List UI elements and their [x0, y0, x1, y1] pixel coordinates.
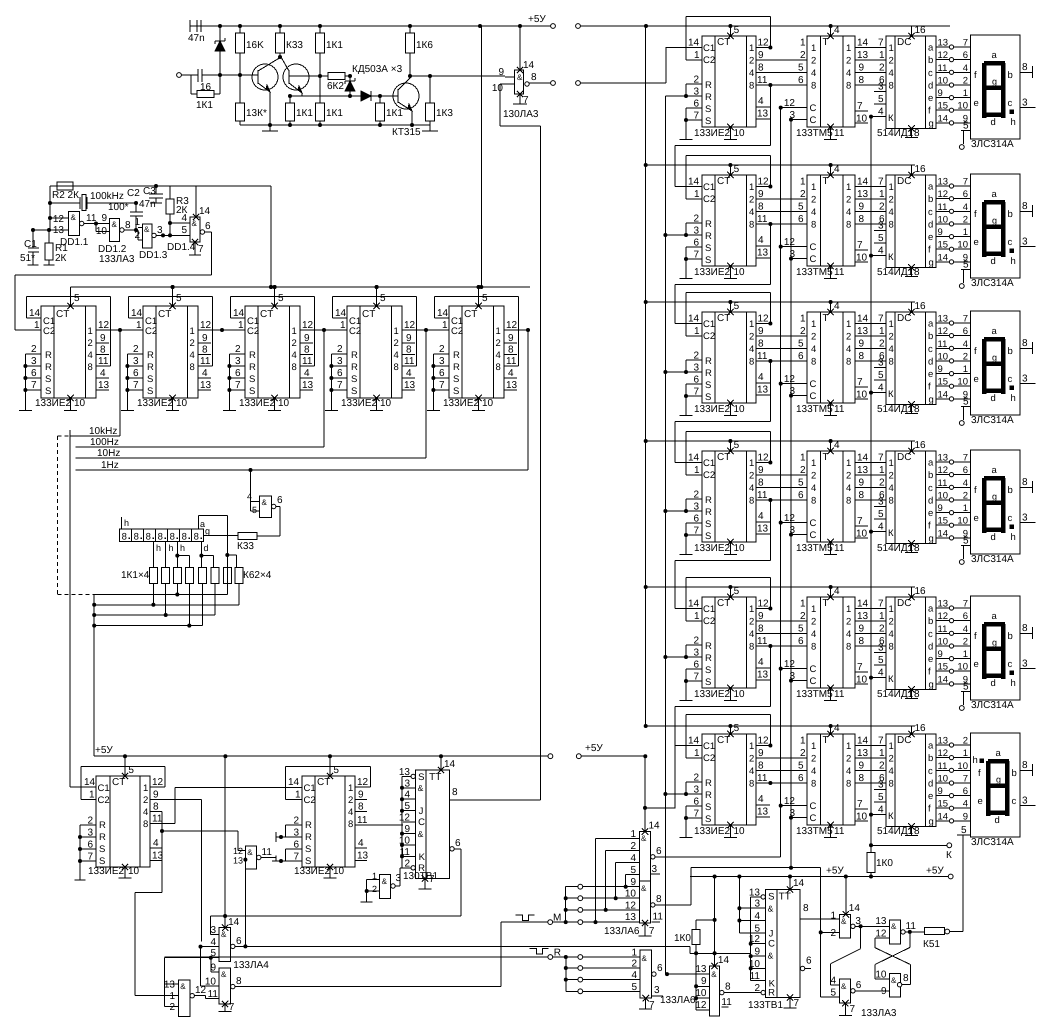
svg-text:8: 8: [758, 624, 764, 635]
svg-text:2: 2: [889, 754, 894, 765]
svg-text:1К1: 1К1: [196, 100, 213, 111]
svg-text:C: C: [810, 103, 817, 114]
resistor K33 blink: [203, 533, 257, 552]
resistor R1 2K: [44, 228, 69, 265]
svg-text:&: &: [841, 982, 847, 991]
wire row2 latch outputs: [855, 177, 886, 264]
counter DD4 133IE2 (divider 2): [143, 306, 198, 398]
svg-text:9: 9: [498, 67, 504, 78]
svg-text:4: 4: [508, 368, 514, 379]
wire +5V row bus: [645, 26, 647, 726]
svg-text:2: 2: [749, 56, 754, 67]
svg-text:14: 14: [857, 453, 869, 464]
wire HG1 pin a: [199, 516, 230, 595]
svg-text:15: 15: [938, 377, 949, 388]
svg-text:16: 16: [915, 440, 927, 451]
svg-text:14: 14: [857, 177, 869, 188]
svg-text:10Hz: 10Hz: [97, 448, 120, 459]
svg-text:2: 2: [811, 56, 816, 67]
wire minute signal line: [163, 958, 165, 984]
decoder DD12 514ID1 row 1: [886, 36, 936, 129]
wire row4 counter loop 12-C2: [686, 431, 773, 476]
svg-text:S: S: [705, 243, 711, 254]
svg-text:8: 8: [170, 532, 175, 543]
svg-text:1К1: 1К1: [386, 108, 403, 119]
svg-text:2: 2: [372, 884, 377, 894]
svg-text:К: К: [946, 850, 952, 861]
svg-text:8: 8: [859, 75, 865, 86]
svg-text:TT: TT: [779, 892, 791, 903]
latch DD23 133TM5 row 5: [807, 597, 855, 688]
svg-text:133ТМ5: 133ТМ5: [796, 543, 833, 554]
svg-text:c: c: [1008, 659, 1013, 670]
svg-text:7: 7: [963, 314, 968, 325]
wire row5 latch outputs: [855, 599, 886, 686]
wire row1 display pin5: [959, 121, 970, 150]
svg-text:d: d: [928, 81, 933, 92]
svg-text:8: 8: [190, 362, 195, 373]
decoder DD24 514ID1 row 5: [886, 597, 936, 690]
svg-text:6: 6: [963, 465, 968, 476]
svg-text:1: 1: [631, 948, 637, 959]
svg-text:1: 1: [811, 741, 816, 752]
svg-text:К: К: [888, 252, 894, 263]
svg-text:1: 1: [879, 748, 885, 759]
wire row5 decoder aux pins: [869, 643, 886, 680]
svg-text:1Hz: 1Hz: [101, 460, 119, 471]
svg-text:5: 5: [798, 478, 804, 489]
svg-text:4: 4: [749, 629, 754, 640]
svg-text:3: 3: [439, 356, 445, 367]
svg-text:4: 4: [631, 970, 637, 981]
svg-text:2: 2: [963, 637, 968, 648]
svg-text:1: 1: [89, 790, 95, 801]
wire DD8.1 out 6: [257, 495, 283, 536]
svg-text:R: R: [147, 362, 154, 373]
svg-text:12: 12: [195, 985, 207, 996]
svg-text:8: 8: [394, 362, 399, 373]
svg-text:14: 14: [688, 314, 700, 325]
svg-text:5: 5: [798, 63, 804, 74]
svg-text:7: 7: [878, 38, 884, 49]
svg-text:1: 1: [889, 43, 894, 54]
svg-text:S: S: [705, 380, 711, 391]
wire row3 decoder pin8 ground: [877, 401, 920, 415]
svg-text:4: 4: [292, 350, 297, 361]
svg-text:4: 4: [878, 107, 884, 118]
wire DD5 outputs: [292, 320, 327, 391]
svg-text:6: 6: [798, 490, 804, 501]
svg-text:10: 10: [278, 398, 290, 409]
svg-text:g: g: [996, 775, 1001, 785]
svg-text:8: 8: [859, 490, 865, 501]
svg-text:g: g: [929, 394, 934, 405]
wire shield dashed: [57, 436, 94, 595]
svg-text:4: 4: [889, 766, 894, 777]
svg-text:4: 4: [758, 235, 764, 246]
svg-text:15: 15: [938, 662, 949, 673]
svg-text:S: S: [705, 814, 711, 825]
wire row2 decoder pin16 +5V: [908, 164, 926, 178]
svg-text:4: 4: [834, 723, 840, 734]
svg-text:6: 6: [798, 773, 804, 784]
svg-text:8: 8: [914, 128, 920, 139]
svg-text:13: 13: [757, 109, 769, 120]
decoder DD15 514ID1 row 2: [886, 175, 936, 268]
svg-text:3: 3: [337, 356, 343, 367]
svg-text:1: 1: [800, 599, 806, 610]
svg-text:S: S: [705, 392, 711, 403]
svg-text:2: 2: [800, 748, 806, 759]
svg-text:8: 8: [182, 532, 187, 543]
svg-text:e: e: [974, 513, 979, 524]
svg-text:13: 13: [506, 380, 518, 391]
svg-text:13: 13: [757, 807, 769, 818]
svg-text:7: 7: [794, 998, 800, 1009]
svg-text:6: 6: [439, 368, 445, 379]
svg-text:1: 1: [442, 320, 448, 331]
diode VD2 zener: [345, 74, 355, 98]
diode VD3: [350, 91, 382, 101]
wire DD32.1 out 6: [231, 936, 690, 953]
svg-text:CT: CT: [362, 309, 375, 320]
svg-text:2: 2: [963, 490, 968, 501]
svg-text:h: h: [180, 543, 185, 553]
svg-text:d: d: [928, 779, 933, 790]
svg-text:13: 13: [857, 611, 869, 622]
svg-text:9: 9: [758, 50, 764, 61]
svg-text:11: 11: [302, 356, 313, 367]
svg-text:5: 5: [963, 397, 969, 408]
svg-text:2: 2: [754, 983, 760, 994]
svg-text:14: 14: [938, 674, 949, 685]
svg-text:4: 4: [963, 339, 968, 350]
wire +5V rail row 4: [644, 439, 915, 443]
svg-text:14: 14: [437, 308, 449, 319]
svg-text:C2: C2: [703, 331, 715, 342]
svg-text:C: C: [810, 530, 817, 541]
svg-text:12: 12: [758, 736, 770, 747]
svg-text:4: 4: [889, 207, 894, 218]
svg-text:2: 2: [879, 63, 885, 74]
svg-text:14: 14: [688, 736, 700, 747]
op-gate DD30.1 gate 12-13: [160, 829, 272, 946]
svg-text:1: 1: [846, 182, 851, 193]
svg-text:133ТМ5: 133ТМ5: [796, 826, 833, 837]
wire row2 counter pin5: [727, 163, 739, 178]
svg-text:11: 11: [834, 404, 845, 415]
wire row3 latch pin4 +5V: [827, 300, 840, 315]
svg-text:7: 7: [649, 926, 655, 937]
svg-text:4: 4: [889, 344, 894, 355]
svg-text:5: 5: [878, 233, 884, 244]
wire DD3 pin10 ground: [64, 395, 85, 411]
svg-text:c: c: [1012, 796, 1017, 807]
wire row6 display h segment: [973, 755, 985, 766]
svg-text:7: 7: [857, 240, 863, 251]
ground analog left: [262, 125, 278, 131]
wire row4 display pin3: [1020, 513, 1035, 524]
wire row6 counter loop 12-C2: [686, 714, 773, 759]
svg-text:514ИД1: 514ИД1: [877, 826, 914, 837]
counter DD10 133IE2 row 1: [702, 36, 756, 127]
wire common line 0: [94, 594, 227, 596]
svg-text:8: 8: [304, 345, 310, 356]
svg-text:8: 8: [348, 819, 353, 830]
resistor 1K6: [406, 26, 434, 76]
svg-text:8: 8: [194, 532, 199, 543]
svg-text:14: 14: [938, 252, 949, 263]
svg-text:d: d: [991, 678, 996, 689]
svg-text:DD1.1: DD1.1: [60, 237, 89, 248]
svg-text:1: 1: [811, 182, 816, 193]
svg-text:14: 14: [523, 60, 535, 71]
svg-text:S: S: [705, 677, 711, 688]
svg-text:8: 8: [749, 220, 754, 231]
svg-text:11: 11: [98, 356, 109, 367]
svg-text:C1: C1: [703, 43, 715, 54]
svg-text:S: S: [249, 374, 255, 385]
svg-text:100*: 100*: [108, 202, 129, 213]
wire row5 counter pin14 feed: [675, 500, 770, 609]
wire row1 display pin3: [1020, 98, 1035, 109]
svg-text:5: 5: [734, 164, 740, 175]
wire row3 decoder pin16 +5V: [908, 301, 926, 315]
node input terminal: [177, 73, 182, 78]
svg-text:8: 8: [846, 220, 851, 231]
svg-text:1: 1: [190, 326, 195, 337]
svg-text:133ТМ5: 133ТМ5: [796, 128, 833, 139]
svg-text:g: g: [992, 492, 997, 502]
wire cA pin8 link: [135, 812, 162, 893]
svg-text:S: S: [418, 772, 424, 783]
wire DD36 out 8: [720, 982, 761, 1008]
op-gate DD30.2 gate 1-2: [361, 868, 402, 902]
svg-text:6: 6: [205, 221, 211, 232]
svg-text:C: C: [810, 518, 817, 529]
svg-text:8: 8: [914, 543, 920, 554]
svg-text:14: 14: [233, 308, 245, 319]
svg-text:d: d: [991, 393, 996, 404]
svg-text:9: 9: [859, 624, 865, 635]
wire K line: [871, 843, 952, 861]
svg-text:12: 12: [758, 177, 770, 188]
svg-text:S: S: [768, 892, 774, 903]
op-gate DD38.2 133LA3 13-12: [875, 916, 925, 944]
svg-text:1: 1: [800, 38, 806, 49]
wire row6 decoder outputs: [936, 736, 970, 824]
svg-text:R: R: [99, 820, 106, 831]
op-gate DD33 gate 13-1-2: [135, 893, 207, 1017]
svg-text:4: 4: [100, 368, 106, 379]
svg-text:16: 16: [915, 586, 927, 597]
svg-text:8: 8: [749, 496, 754, 507]
wire +5V feed to counters rail: [269, 26, 483, 289]
svg-text:9: 9: [938, 649, 943, 660]
svg-text:8: 8: [100, 345, 106, 356]
svg-text:8: 8: [914, 404, 920, 415]
svg-text:13: 13: [875, 916, 887, 927]
svg-text:9: 9: [938, 227, 943, 238]
display HG5 3LS314A row 4: [970, 450, 1020, 554]
wire cA pin14 10kHz: [70, 786, 96, 788]
svg-text:1К1: 1К1: [326, 40, 343, 51]
svg-text:16K: 16K: [246, 40, 264, 51]
svg-text:7: 7: [850, 1004, 856, 1015]
svg-text:8: 8: [846, 779, 851, 790]
svg-text:2: 2: [830, 928, 836, 939]
svg-text:6: 6: [656, 846, 662, 857]
svg-text:9: 9: [101, 213, 107, 224]
svg-text:15: 15: [938, 101, 949, 112]
svg-text:1: 1: [394, 326, 399, 337]
wire DD1.4 out 6: [200, 221, 212, 275]
svg-text:2: 2: [169, 1002, 175, 1013]
svg-text:&: &: [768, 904, 774, 914]
svg-text:R: R: [249, 362, 256, 373]
svg-text:10: 10: [938, 351, 949, 362]
svg-text:C1: C1: [703, 182, 715, 193]
svg-text:4: 4: [358, 838, 364, 849]
wire row5 decoder pin16 +5V: [908, 586, 926, 600]
wire DD37 pin8 out: [800, 903, 839, 919]
svg-text:8: 8: [125, 220, 131, 231]
counter DD3 133IE2 (divider 1): [41, 306, 96, 398]
resistor 1K0 b: [867, 845, 893, 876]
label KD503A x3: [352, 64, 403, 75]
svg-text:C: C: [810, 254, 817, 265]
wire DD7 loop 11-14: [434, 297, 518, 366]
svg-text:8: 8: [496, 362, 501, 373]
svg-text:13: 13: [938, 736, 949, 747]
wire DD2 pin9: [498, 67, 514, 78]
svg-text:8: 8: [452, 787, 458, 798]
svg-text:13: 13: [757, 524, 769, 535]
counter DD6 133IE2 (divider 4): [347, 306, 402, 398]
svg-text:&: &: [180, 982, 186, 991]
svg-text:7: 7: [133, 380, 139, 391]
svg-text:8: 8: [889, 779, 894, 790]
svg-text:a: a: [992, 611, 998, 622]
svg-text:8: 8: [903, 973, 909, 984]
svg-text:4: 4: [758, 96, 764, 107]
wire row2 latch clocks: [779, 237, 807, 261]
wire DD3 R S pins: [19, 344, 41, 411]
label 133LA3 bottom: [861, 1008, 897, 1019]
svg-text:11: 11: [757, 75, 768, 86]
svg-text:e: e: [928, 369, 933, 380]
svg-text:14: 14: [938, 811, 949, 822]
wire R feed: [0, 0, 1, 1]
transistor VT3 KT315: [380, 77, 421, 138]
svg-text:8: 8: [859, 214, 865, 225]
svg-text:13: 13: [857, 50, 869, 61]
svg-text:1: 1: [800, 177, 806, 188]
svg-text:2: 2: [963, 736, 968, 747]
op-gate DD32.1 133LA4 a: [164, 925, 230, 962]
svg-text:11: 11: [938, 63, 948, 74]
svg-text:10: 10: [734, 689, 746, 700]
svg-text:4: 4: [963, 624, 968, 635]
svg-text:10: 10: [957, 662, 968, 673]
svg-text:11: 11: [834, 128, 845, 139]
svg-text:C2: C2: [304, 795, 316, 806]
wire +5V mid connectors: [548, 743, 647, 759]
svg-text:7: 7: [963, 453, 968, 464]
wire row2 display pin3: [1020, 237, 1035, 248]
svg-text:514ИД1: 514ИД1: [877, 689, 914, 700]
svg-text:133ЛА3: 133ЛА3: [861, 1008, 897, 1019]
svg-text:R: R: [453, 362, 460, 373]
svg-text:S: S: [453, 386, 459, 397]
wire DD2 pin7 ground: [513, 91, 529, 106]
wire cA pin9 down: [201, 800, 203, 942]
svg-text:CT: CT: [260, 309, 273, 320]
svg-text:10: 10: [128, 866, 140, 877]
wire K bus: [869, 117, 873, 848]
svg-text:f: f: [928, 804, 931, 815]
svg-text:&: &: [891, 976, 897, 985]
svg-text:9: 9: [202, 333, 208, 344]
svg-text:c: c: [928, 766, 933, 777]
svg-text:R: R: [99, 832, 106, 843]
svg-text:4: 4: [181, 213, 187, 224]
resistor K51: [923, 928, 963, 951]
svg-text:15: 15: [938, 516, 949, 527]
svg-text:b: b: [1008, 70, 1013, 81]
svg-text:2: 2: [879, 339, 885, 350]
svg-text:1: 1: [694, 326, 700, 337]
svg-text:2: 2: [235, 344, 241, 355]
wire DD35 pin7 ground: [639, 995, 696, 1011]
svg-text:1: 1: [963, 748, 968, 759]
latch DD26 133TM5 row 6: [807, 734, 855, 825]
svg-text:C2: C2: [43, 326, 55, 337]
svg-text:b: b: [1008, 485, 1013, 496]
wire row6 decoder pin16 +5V: [908, 723, 926, 737]
svg-text:2: 2: [31, 344, 37, 355]
wire DD32.2 pin7 ground: [219, 1001, 235, 1013]
svg-text:f: f: [978, 768, 981, 779]
node +5V break connectors: [528, 14, 580, 28]
wire cA pin5: [122, 754, 135, 779]
svg-text:d: d: [204, 543, 209, 553]
svg-text:g: g: [205, 526, 210, 536]
wire DD7 pin5 +5V: [475, 285, 488, 309]
wire osc to counter C2: [15, 275, 212, 330]
svg-text:8: 8: [134, 532, 139, 543]
svg-text:14: 14: [849, 903, 861, 914]
wire DD2 pin8 out: [525, 47, 666, 86]
svg-text:C: C: [810, 801, 817, 812]
svg-text:e: e: [928, 93, 933, 104]
svg-text:1: 1: [889, 604, 894, 615]
svg-text:13: 13: [757, 385, 769, 396]
svg-text:3: 3: [1022, 237, 1028, 248]
svg-text:2: 2: [846, 754, 851, 765]
wire DD34 out 8: [651, 868, 821, 923]
wire row3 counter outputs to latch: [756, 314, 807, 396]
wire row6 counter pin5: [727, 723, 739, 737]
svg-text:1К1: 1К1: [296, 108, 313, 119]
svg-text:S: S: [147, 374, 153, 385]
svg-text:10: 10: [74, 398, 86, 409]
wire common line 1: [92, 603, 239, 607]
resistor 1K1 upper: [316, 26, 344, 76]
wire main +5V rail: [190, 24, 950, 28]
svg-text:g: g: [929, 118, 934, 129]
svg-text:6: 6: [963, 50, 968, 61]
